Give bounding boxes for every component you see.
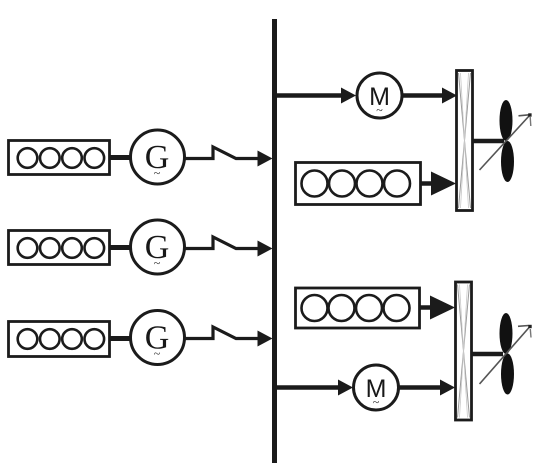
engine E3 [9, 322, 110, 357]
feeder bus to motor M1 [277, 93, 342, 98]
svg-text:~: ~ [154, 166, 161, 180]
breaker CB2 [185, 237, 273, 257]
propeller P2 [500, 313, 515, 395]
propeller P1 [500, 100, 515, 182]
arrow into gearbox 2 [440, 380, 455, 396]
shaft gearbox1-propeller [473, 139, 504, 144]
engine E1 [9, 141, 110, 175]
shaft E3-G3 [110, 336, 131, 341]
svg-text:~: ~ [154, 347, 161, 361]
generator G1 [131, 130, 185, 184]
svg-text:~: ~ [376, 103, 383, 117]
arrow into gearbox 1 [442, 88, 457, 104]
feeder bus to motor M2 [277, 385, 339, 390]
breaker CB1 [185, 147, 273, 167]
generator G3 [131, 311, 185, 365]
shaft E2-G2 [110, 245, 131, 250]
wire M2-gearbox [399, 385, 442, 390]
shaft E1-G1 [110, 155, 131, 160]
motor M2 [354, 365, 399, 410]
arrow E4 into gearbox 1 [421, 181, 434, 186]
pitch arrow P2 [480, 325, 532, 384]
gearbox GB2 [456, 282, 472, 420]
arrow into M2 [338, 380, 353, 396]
svg-text:~: ~ [154, 256, 161, 270]
gearbox GB1 [457, 71, 473, 211]
generator G2 [131, 220, 185, 274]
engine E2 [9, 231, 110, 265]
breaker CB3 [185, 327, 273, 347]
wire M1-gearbox [402, 93, 444, 98]
motor M1 [357, 73, 402, 118]
arrow into M1 [341, 88, 356, 104]
svg-text:~: ~ [373, 395, 380, 409]
engine E4 (PTI top) [296, 163, 421, 205]
pitch arrow P1 [480, 113, 532, 170]
engine E5 (PTI bottom) [296, 288, 420, 328]
shaft gearbox2-propeller [472, 352, 503, 357]
main switchboard bus [272, 19, 277, 463]
arrow E5 into gearbox 2 [420, 305, 433, 310]
